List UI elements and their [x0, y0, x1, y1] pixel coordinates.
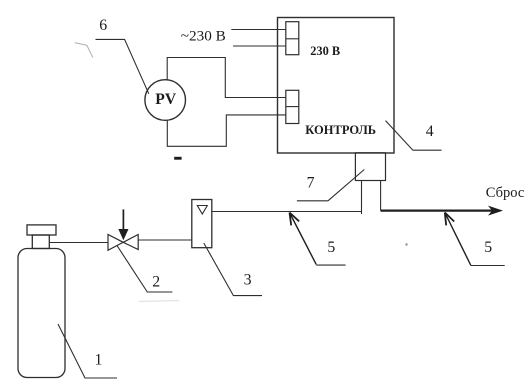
leader line 7	[297, 170, 364, 201]
valve V2 bowtie right triangle	[123, 235, 138, 250]
leader line 2	[117, 246, 172, 293]
svg-text:КОНТРОЛЬ: КОНТРОЛЬ	[305, 123, 376, 137]
PV wire plus: circle top to terminal X2 upper	[167, 58, 286, 98]
svg-text:230 В: 230 В	[310, 44, 340, 58]
leader line 6	[96, 39, 149, 93]
svg-text:Сброс: Сброс	[486, 185, 525, 201]
faint stray dot right	[405, 243, 407, 245]
sampling point 5 left tail	[316, 264, 345, 266]
outlet pipe left wall	[361, 181, 363, 215]
voltmeter PV circle	[145, 80, 186, 121]
outlet fitting 7 block	[355, 153, 385, 181]
cylinder neck	[32, 235, 49, 249]
minus polarity mark	[174, 157, 181, 160]
sampling point 5 right tail	[471, 265, 505, 267]
svg-text:2: 2	[152, 273, 160, 290]
discharge line to vent	[381, 210, 494, 212]
valve V2 bowtie left triangle	[108, 235, 123, 251]
mains wire L	[231, 29, 285, 31]
leader line 3	[204, 243, 262, 296]
svg-text:PV: PV	[155, 91, 177, 108]
gas cylinder 1 body	[18, 249, 65, 378]
terminal block X2	[286, 90, 299, 123]
pipe valve to rotameter	[138, 239, 192, 241]
svg-text:5: 5	[327, 239, 335, 256]
valve actuation arrow	[118, 209, 128, 240]
svg-text:5: 5	[484, 239, 492, 256]
leader line 4	[386, 121, 442, 151]
svg-text:4: 4	[426, 123, 434, 140]
faint stray line bottom	[139, 301, 179, 302]
mains wire N	[233, 45, 286, 47]
pipe cylinder to valve	[49, 242, 108, 244]
sampling arrow 5 left shaft	[290, 214, 316, 265]
terminal block X1	[286, 22, 299, 55]
control unit 4 enclosure	[278, 18, 395, 154]
svg-text:~230 В: ~230 В	[181, 28, 226, 45]
svg-text:1: 1	[95, 352, 103, 369]
svg-text:7: 7	[307, 174, 315, 191]
cylinder cap	[27, 225, 56, 235]
PV wire minus: circle bottom to terminal X2 lower	[167, 115, 285, 146]
svg-text:6: 6	[99, 17, 107, 34]
svg-text:3: 3	[244, 271, 252, 288]
sampling arrow 5 right shaft	[445, 214, 471, 266]
sampling arrow 5 left head	[290, 213, 300, 226]
outlet pipe right wall	[380, 181, 382, 211]
main gas line rotameter to unit	[212, 211, 362, 213]
faint stray mark top-left	[75, 43, 93, 58]
rotameter float triangle	[197, 206, 207, 215]
sampling arrow 5 right head	[445, 213, 454, 226]
discharge arrowhead	[488, 206, 503, 216]
leader line 1	[58, 324, 117, 378]
rotameter 3 body	[192, 200, 212, 248]
